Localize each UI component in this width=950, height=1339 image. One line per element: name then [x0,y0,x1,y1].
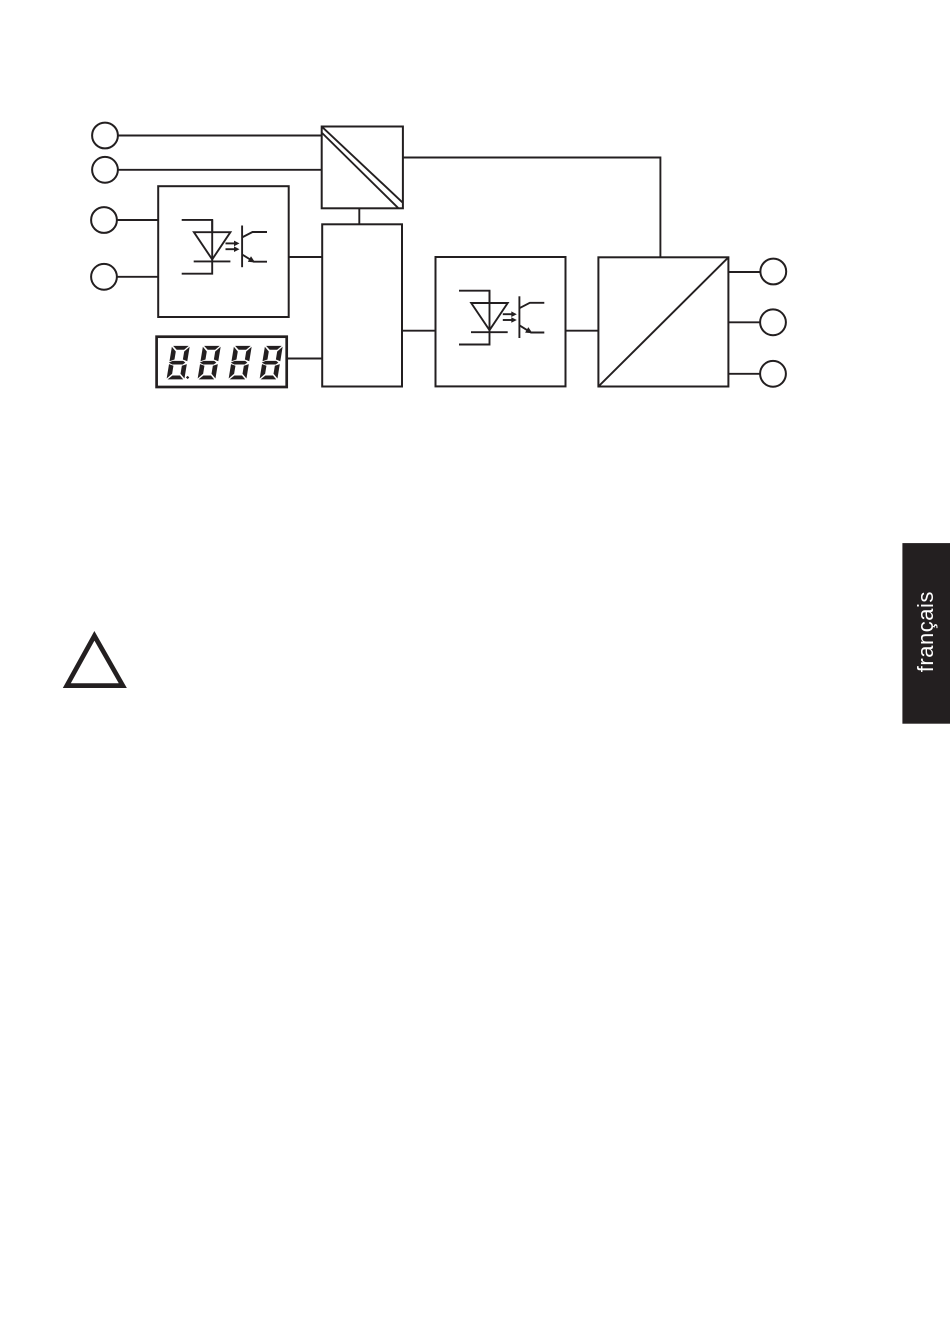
svg-text:français: français [913,591,938,672]
